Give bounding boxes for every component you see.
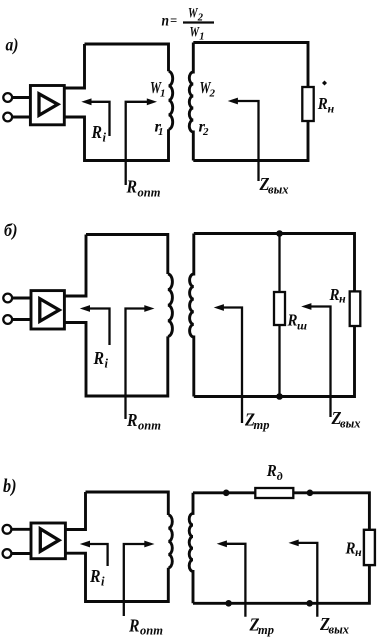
svg-text:R: R xyxy=(93,348,104,368)
label Ropt (circuit b) xyxy=(126,410,161,433)
resistor Rn (circuit b) xyxy=(350,291,361,326)
svg-text:2: 2 xyxy=(202,126,209,138)
input terminal 1 (circuit v) xyxy=(3,525,12,534)
input terminal 2 (circuit a) xyxy=(3,113,12,122)
wire: input 2 to amp xyxy=(12,116,30,119)
measurement line Ropt (circuit v) xyxy=(124,541,155,616)
wire: primary bottom + loop bottom back to amp (circuit a) xyxy=(64,117,168,161)
junction dot bottom of Rsh branch xyxy=(276,393,283,400)
svg-text:R: R xyxy=(128,616,139,636)
wire: input 1 to amp xyxy=(12,96,30,99)
label W2 winding xyxy=(200,78,216,100)
formula n = W2/W1 xyxy=(162,6,205,43)
wire: input 1 to amp (circuit b) xyxy=(12,297,30,300)
wire: loop top (circuit v) xyxy=(86,492,169,515)
arrow Ri (circuit a) xyxy=(81,98,109,136)
svg-text:i: i xyxy=(105,357,109,371)
wire: primary bottom + loop bottom back to amp (circuit v) xyxy=(65,553,168,601)
junction dot bottom left (circuit v) xyxy=(225,600,232,607)
svg-text:н: н xyxy=(355,545,362,559)
label W1 winding xyxy=(150,78,166,100)
svg-text:R: R xyxy=(91,122,102,142)
measurement line Zvyh (circuit v) xyxy=(289,540,318,617)
wire: Rsh branch bottom xyxy=(278,325,280,397)
label r2 winding xyxy=(199,119,210,139)
label Rn (circuit a) xyxy=(317,94,335,116)
measurement line Ropt (circuit b) xyxy=(126,305,155,419)
svg-text:вых: вых xyxy=(329,623,350,637)
svg-text:R: R xyxy=(345,539,356,558)
svg-text:R: R xyxy=(329,285,340,304)
wire: input 1 to amp (circuit v) xyxy=(12,528,31,531)
transformer primary winding (circuit b) xyxy=(168,274,173,336)
label Zvyh (circuit b) xyxy=(331,408,361,431)
svg-text:опт: опт xyxy=(138,186,161,200)
measurement line Ztr (circuit b) xyxy=(214,304,242,423)
arrow Ri (circuit b) xyxy=(80,305,110,345)
label Rn (circuit v) xyxy=(345,539,362,560)
label Ztr (circuit b) xyxy=(244,410,269,433)
svg-text:д: д xyxy=(277,469,283,483)
transformer secondary winding W2 (circuit a) xyxy=(189,43,193,161)
svg-text:n: n xyxy=(162,13,170,30)
resistor Rn (circuit v) xyxy=(364,530,375,565)
measurement line Ropt (circuit a) xyxy=(126,98,157,185)
wire: loop top (circuit b) xyxy=(86,235,168,275)
svg-text:R: R xyxy=(89,566,100,586)
arrow Ri (circuit v) xyxy=(80,541,108,566)
amplifier triangle U2 xyxy=(40,299,59,322)
svg-text:вых: вых xyxy=(340,417,361,431)
measurement line Ztr (circuit v) xyxy=(217,540,246,616)
wire: primary bottom + loop bottom back to amp (circuit b) xyxy=(65,323,168,397)
label Ri (circuit v) xyxy=(89,566,105,589)
svg-text:тр: тр xyxy=(254,418,270,432)
svg-text:а): а) xyxy=(6,35,19,56)
junction dot left of Rd xyxy=(223,490,230,497)
label r1 winding xyxy=(155,119,164,139)
svg-text:н: н xyxy=(328,102,335,116)
svg-text:тр: тр xyxy=(258,623,274,637)
wire: amp top output up to loop top (circuit v) xyxy=(65,492,85,530)
wire: loop top (circuit a) xyxy=(85,44,169,71)
svg-text:2: 2 xyxy=(209,88,216,100)
svg-text:1: 1 xyxy=(158,126,164,138)
label Ropt (circuit a) xyxy=(126,177,161,200)
label Rn (circuit b) xyxy=(329,285,346,306)
svg-text:i: i xyxy=(103,131,107,145)
svg-text:i: i xyxy=(101,575,105,589)
measurement line Zvyh (circuit b) xyxy=(301,303,330,417)
input terminal 2 (circuit v) xyxy=(3,549,12,558)
svg-text:опт: опт xyxy=(140,624,163,638)
input terminal 2 (circuit b) xyxy=(3,315,12,324)
label Ri (circuit a) xyxy=(91,122,107,145)
wire: secondary loop top left segment (circuit v) xyxy=(193,491,255,494)
wire: input 2 to amp (circuit b) xyxy=(12,318,30,321)
wire: amp top output up to loop top (circuit a) xyxy=(64,44,84,88)
svg-text:н: н xyxy=(339,292,346,306)
label Zvyh (circuit v) xyxy=(319,614,349,637)
input terminal 1 (circuit b) xyxy=(3,294,12,303)
junction dot bottom right (circuit v) xyxy=(306,600,313,607)
svg-text:б): б) xyxy=(4,220,18,241)
measurement line Zvyh (circuit a) xyxy=(228,98,259,181)
star mark above Rn xyxy=(322,81,327,86)
amplifier triangle U3 xyxy=(40,529,59,552)
wire: Rsh branch top xyxy=(278,234,280,293)
transformer primary winding (circuit v) xyxy=(168,515,172,568)
transformer secondary winding (circuit v) xyxy=(189,493,193,604)
svg-text:опт: опт xyxy=(138,419,161,433)
wire: Rn to loop bottom (circuit a) xyxy=(193,121,308,161)
formula fraction bar xyxy=(183,21,214,23)
svg-text:1: 1 xyxy=(199,32,204,43)
svg-text:R: R xyxy=(287,311,298,330)
svg-text:1: 1 xyxy=(160,88,166,100)
amplifier box U3 xyxy=(31,523,65,559)
junction dot top of Rsh branch xyxy=(276,230,283,237)
resistor Rd (circuit v) xyxy=(255,488,293,498)
amplifier box U1 xyxy=(30,86,64,125)
transformer secondary winding (circuit b) xyxy=(190,234,194,397)
junction dot right of Rd xyxy=(307,490,314,497)
wire: Rn to loop bottom + loop bottom (circuit b) xyxy=(194,326,355,397)
svg-text:R: R xyxy=(126,177,137,197)
wire: input 2 to amp (circuit v) xyxy=(12,552,31,555)
wire: Rn to loop bottom + loop bottom (circuit v) xyxy=(193,565,369,603)
resistor Rn (circuit a) xyxy=(302,87,313,121)
svg-text:=: = xyxy=(170,14,177,28)
label Rsh (circuit b) xyxy=(287,311,307,333)
label Zvyh (circuit a) xyxy=(259,174,289,197)
svg-text:ш: ш xyxy=(297,319,307,333)
amplifier box U2 xyxy=(31,291,64,329)
svg-text:вых: вых xyxy=(268,183,289,197)
svg-text:b): b) xyxy=(3,476,17,497)
input terminal 1 (circuit a) xyxy=(3,93,12,102)
wire: secondary loop top (circuit a) xyxy=(193,43,308,88)
wire: secondary loop top right segment (circuit v) xyxy=(293,493,369,530)
label Ropt (circuit v) xyxy=(128,616,163,638)
wire: amp top output up to loop top (circuit b) xyxy=(65,235,86,297)
label Ri (circuit b) xyxy=(93,348,109,371)
wire: secondary loop top (circuit b) xyxy=(194,234,355,292)
svg-text:R: R xyxy=(126,410,137,430)
label Rd (circuit v) xyxy=(266,461,283,483)
svg-text:R: R xyxy=(317,94,328,113)
label Ztr (circuit v) xyxy=(249,615,274,638)
svg-text:R: R xyxy=(266,461,277,480)
amplifier triangle U1 xyxy=(39,94,58,116)
resistor Rsh (circuit b) xyxy=(274,292,285,325)
transformer primary winding W1 (circuit a) xyxy=(169,71,173,129)
